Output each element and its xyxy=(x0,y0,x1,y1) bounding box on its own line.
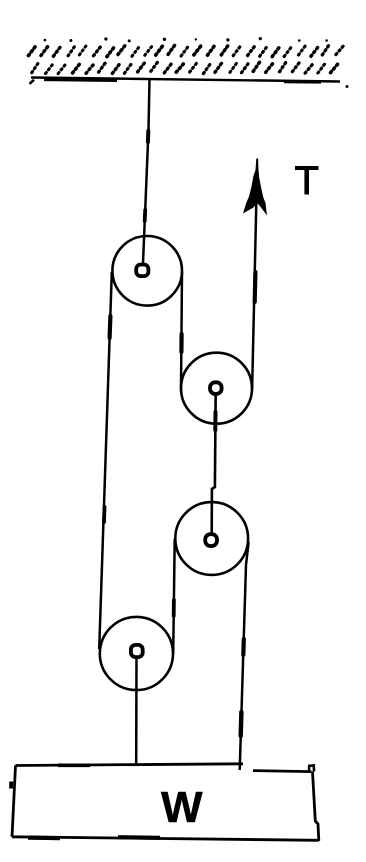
wire: rope from ceiling to pulley P1 hub xyxy=(143,79,150,268)
hub of pulley P2 xyxy=(210,382,222,394)
wire: link from pulley P4 hub down to weight block xyxy=(135,655,138,764)
pulley P3 xyxy=(175,502,248,575)
weight block W: outline xyxy=(11,764,319,841)
svg-text:T: T xyxy=(295,159,319,203)
pulley P4 xyxy=(100,617,173,690)
wire: link from pulley P2 hub down to pulley P3 hub xyxy=(212,390,216,534)
hub of pulley P3 xyxy=(205,534,217,546)
pulley P2 xyxy=(181,353,252,424)
svg-text:W: W xyxy=(161,783,203,832)
wire: rope from pulley P1 right side down to pulley P2 left side xyxy=(181,272,182,389)
wire: left rope from pulley P1 down to pulley P4 xyxy=(99,272,112,649)
wire: rope from pulley P3 right side down to weight block xyxy=(240,542,249,770)
wire: rope from pulley P2 right side up to tension arrow xyxy=(252,203,256,390)
pulley P1 (hangs from ceiling) xyxy=(112,236,182,306)
hub of pulley P1 xyxy=(136,265,148,277)
ceiling hatching xyxy=(28,37,344,74)
tension arrow head xyxy=(243,159,267,216)
wire: rope from pulley P4 right side up to pulley P3 left side xyxy=(173,539,175,654)
ceiling line xyxy=(30,78,349,89)
hub of pulley P4 xyxy=(131,645,143,657)
